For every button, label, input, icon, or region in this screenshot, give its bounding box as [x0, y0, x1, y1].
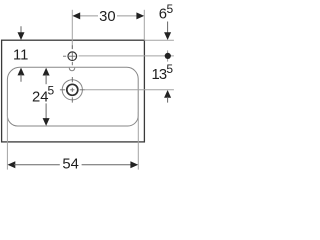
reference dot on tap line [165, 53, 171, 59]
dim 30 line right segment [117, 15, 138, 17]
overflow slot [69, 68, 75, 71]
drain outer circle [62, 80, 82, 100]
dim 30 right arrow [136, 12, 144, 19]
dim 54 line left segment [14, 164, 60, 166]
dim 11 up arrow shaft [20, 74, 22, 81]
washbasin outer rect [2, 40, 145, 142]
dim 54 line right segment [82, 164, 132, 166]
svg-text:5: 5 [167, 2, 174, 16]
dim 30 left arrow [72, 12, 80, 19]
drain inner circle [67, 84, 78, 95]
svg-text:13: 13 [152, 67, 167, 83]
svg-text:30: 30 [99, 9, 115, 25]
drain centerline horizontal dashes [60, 89, 85, 91]
reference dot vertical tick [167, 50, 169, 61]
drain centerline vertical dashes [71, 77, 73, 103]
dim 11 up arrow head [18, 68, 25, 76]
tap hole circle [68, 52, 77, 61]
svg-text:54: 54 [62, 156, 78, 172]
6^5 down arrow head [164, 32, 171, 40]
tap hole centerline vertical dashes [71, 45, 73, 65]
svg-text:5: 5 [48, 84, 55, 98]
6^5 top reference line (rear edge extended right) [144, 39, 174, 41]
extension line 30 left (tap axis vertical) [71, 10, 73, 49]
dim 24^5 upper shaft [45, 75, 47, 85]
drain center line extended right [85, 89, 174, 91]
dim 24^5 lower shaft [45, 103, 47, 119]
dim 11 down arrow head [18, 32, 25, 40]
dim 54 left arrow [8, 161, 16, 168]
54 extension line right [137, 112, 139, 170]
dim 30 line left segment [79, 15, 98, 17]
dim 24^5 up arrow head [43, 68, 50, 76]
13^5 up arrow shaft [167, 97, 169, 103]
54 extension line left [6, 110, 8, 170]
extension line 30 right (outer right edge vertical) [143, 10, 145, 40]
inner bowl outline [7, 67, 138, 126]
svg-text:5: 5 [166, 62, 173, 76]
dim 11 down arrow shaft [20, 26, 22, 33]
dim 54 right arrow [130, 161, 138, 168]
13^5 up arrow head [164, 90, 171, 98]
svg-text:11: 11 [13, 48, 28, 64]
svg-text:24: 24 [32, 90, 48, 106]
tap hole centerline horizontal dashes [63, 55, 76, 57]
tap hole center line extended right [79, 55, 174, 57]
dim 24^5 down arrow head [43, 118, 50, 126]
6^5 down arrow shaft [167, 22, 169, 34]
